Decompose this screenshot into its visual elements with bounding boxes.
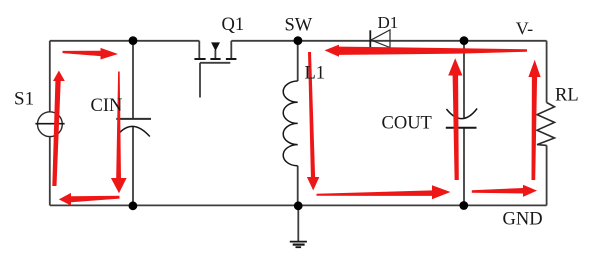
current arrow bottom-right right bbox=[472, 185, 537, 197]
svg-text:SW: SW bbox=[285, 16, 313, 36]
svg-text:GND: GND bbox=[503, 210, 543, 230]
svg-text:V-: V- bbox=[516, 19, 533, 39]
transistor Q1 bbox=[199, 41, 231, 98]
wire COUT branch lower bbox=[463, 128, 465, 205]
current arrow L1 down bbox=[307, 52, 319, 191]
current arrow CIN down bbox=[111, 72, 127, 194]
current arrow RL up bbox=[528, 60, 540, 180]
current arrow bottom-mid right bbox=[317, 185, 451, 199]
svg-text:L1: L1 bbox=[305, 64, 326, 84]
source S1 circle bbox=[38, 112, 63, 137]
ground symbol bbox=[290, 242, 307, 248]
wire ground stem bbox=[297, 205, 299, 241]
wire right edge upper bbox=[546, 41, 548, 103]
wire left edge S1 branch upper bbox=[49, 41, 51, 112]
current arrow S1 up bbox=[52, 71, 65, 187]
current arrow top-left right bbox=[63, 48, 119, 60]
current arrow V- to SW left bbox=[325, 45, 528, 57]
wire top-left rail bbox=[50, 40, 200, 42]
capacitor COUT bottom plate bbox=[446, 127, 477, 129]
inductor L1 coil bbox=[283, 81, 298, 166]
svg-text:CIN: CIN bbox=[91, 96, 123, 116]
current arrow COUT up bbox=[448, 58, 462, 180]
svg-text:S1: S1 bbox=[14, 89, 34, 110]
node junction dot CIN bottom bbox=[129, 201, 138, 210]
wire right edge lower bbox=[546, 145, 548, 205]
node junction dot SW bbox=[294, 36, 303, 45]
capacitor CIN top plate bbox=[116, 118, 151, 120]
svg-text:D1: D1 bbox=[378, 13, 399, 32]
resistor RL zigzag bbox=[537, 103, 555, 146]
wire SW node to L1 bbox=[297, 41, 299, 81]
diode D1 triangle bbox=[371, 30, 390, 48]
node junction dot V- top bbox=[460, 36, 469, 45]
wire L1 bottom to GND rail bbox=[297, 166, 299, 206]
transistor Q1 arrow bbox=[211, 42, 220, 51]
wire CIN branch lower bbox=[132, 126, 134, 205]
node junction dot COUT bottom bbox=[459, 201, 468, 210]
wire left edge S1 branch lower bbox=[49, 137, 51, 206]
capacitor COUT curved plate bbox=[446, 109, 477, 119]
wire COUT branch upper bbox=[463, 41, 465, 118]
wire CIN branch upper bbox=[132, 41, 134, 118]
wire bottom rail bbox=[50, 204, 547, 206]
node junction dot CIN top bbox=[129, 36, 138, 45]
current arrow bottom-left left bbox=[59, 193, 120, 206]
source S1 bar bbox=[35, 123, 64, 125]
svg-text:COUT: COUT bbox=[382, 114, 432, 134]
svg-text:RL: RL bbox=[555, 86, 579, 106]
diode D1 cathode bar bbox=[369, 30, 371, 47]
wire top-mid rail SW to D1 to V- bbox=[231, 40, 546, 42]
capacitor CIN curved plate bbox=[120, 126, 150, 136]
node junction dot L1 bottom bbox=[294, 201, 303, 210]
svg-text:Q1: Q1 bbox=[222, 15, 245, 35]
transistor Q1 source/drain ticks bbox=[194, 58, 236, 60]
